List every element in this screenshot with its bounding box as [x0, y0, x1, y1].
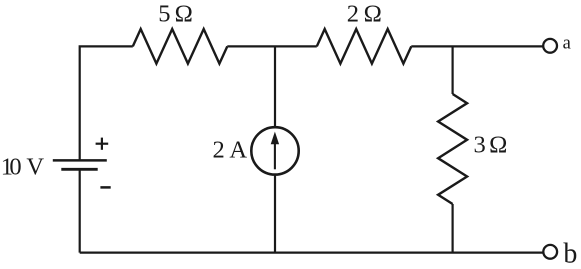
wire 3-ohm top	[452, 46, 454, 94]
battery plus sign	[96, 138, 109, 150]
resistor R3 3 ohm	[438, 94, 467, 204]
battery V1 long plate	[53, 159, 107, 162]
wire from 2-ohm to terminal a	[411, 45, 543, 47]
wire current source bottom	[274, 175, 276, 253]
current source arrow head	[271, 132, 279, 145]
svg-text:3: 3	[474, 132, 486, 159]
svg-text:Ω: Ω	[489, 132, 507, 159]
svg-text:0: 0	[9, 153, 21, 180]
wire left vertical top + top rail to 5-ohm	[80, 46, 133, 160]
wire battery bottom vertical	[79, 169, 81, 252]
svg-text:2: 2	[347, 1, 359, 28]
wire current source top	[274, 46, 276, 128]
wire between 5-ohm and 2-ohm	[227, 45, 316, 47]
svg-text:b: b	[563, 239, 577, 269]
svg-text:a: a	[563, 33, 571, 53]
wire bottom rail	[80, 252, 544, 254]
svg-text:2: 2	[213, 136, 225, 163]
terminal b circle	[543, 245, 557, 259]
svg-text:Ω: Ω	[175, 1, 193, 28]
svg-text:A: A	[229, 136, 247, 163]
current source I1 circle	[251, 127, 298, 174]
svg-text:Ω: Ω	[364, 1, 382, 28]
resistor R1 5 ohm	[133, 29, 228, 64]
svg-text:V: V	[26, 153, 44, 180]
resistor R2 2 ohm	[317, 29, 412, 64]
current source arrow shaft	[274, 142, 276, 169]
battery minus sign	[100, 186, 110, 189]
terminal a circle	[543, 39, 557, 53]
battery V1 short plate	[61, 168, 97, 171]
wire 3-ohm bottom	[452, 204, 454, 253]
svg-text:5: 5	[158, 1, 170, 28]
